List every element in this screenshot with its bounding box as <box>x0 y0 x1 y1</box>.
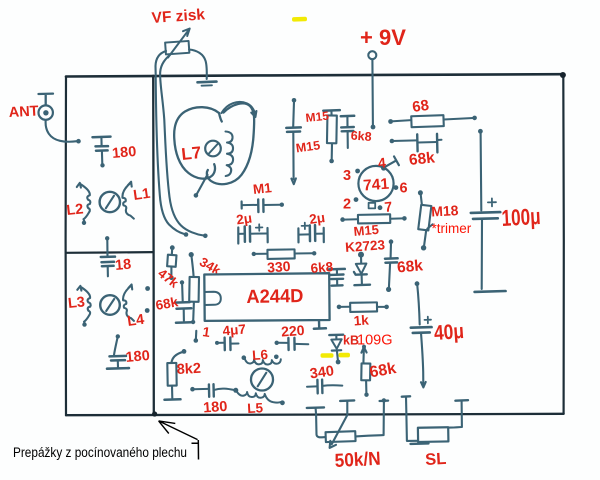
svg-text:68k: 68k <box>396 257 424 276</box>
capacitor 180 (bottom middle) <box>190 384 238 397</box>
potentiometer VF zisk body <box>165 41 189 54</box>
label SL <box>425 450 447 469</box>
svg-text:ANT: ANT <box>8 103 39 121</box>
svg-text:1k: 1k <box>353 312 370 328</box>
coil L2 winding <box>77 183 91 225</box>
svg-text:741: 741 <box>363 176 390 195</box>
label K2723 <box>345 237 386 255</box>
wire L7 bottom lead <box>194 175 208 198</box>
op-amp pin 4 lead with bar <box>381 156 399 170</box>
svg-text:L4: L4 <box>126 312 145 330</box>
wire pot 50k wiper from box <box>330 400 355 448</box>
svg-text:3: 3 <box>343 168 351 184</box>
diode KB109G varicap <box>329 335 343 365</box>
svg-text:6k8: 6k8 <box>350 129 372 144</box>
resistor M15 (vertical) <box>323 110 340 163</box>
wire pot left terminal into box <box>156 51 189 237</box>
label 180 (top left) <box>111 144 137 162</box>
svg-text:SL: SL <box>425 450 447 469</box>
capacitor 6k8 (near 9V) <box>341 116 354 148</box>
op-amp pin 5 square marker <box>369 203 376 209</box>
capacitor 220 <box>275 338 309 350</box>
capacitor 340 <box>307 380 342 394</box>
label 6k8 (near 9V) <box>350 129 372 144</box>
coil L7 winding bumps <box>226 132 234 177</box>
svg-text:M15: M15 <box>305 109 330 125</box>
label L5 <box>247 400 264 416</box>
label pin 7 <box>384 198 394 215</box>
svg-text:180: 180 <box>111 144 137 162</box>
svg-text:2μ: 2μ <box>235 210 253 227</box>
svg-text:M18: M18 <box>431 202 459 219</box>
capacitor 68k (at pin of 741) <box>385 239 398 292</box>
label 2u (right) <box>308 210 326 227</box>
yellow highlighter dash left of KB109G diode <box>321 353 334 358</box>
label 180 (bottom left) <box>125 348 151 366</box>
resistor 1k <box>337 302 389 312</box>
coil L7 main loop <box>174 107 222 179</box>
coil L6 winding <box>242 355 281 365</box>
trimmer M18 <box>418 190 433 250</box>
wire SL right terminal <box>449 400 468 427</box>
wire +9V down into box <box>371 59 376 129</box>
coil L1 winding <box>122 182 133 219</box>
wire L7 top lead with arrow <box>222 102 257 117</box>
svg-text:2: 2 <box>343 197 351 213</box>
label ANT <box>8 103 39 121</box>
resistor 47k <box>167 245 176 280</box>
transformer L3/L4 core <box>100 295 120 315</box>
capacitor M1 <box>242 199 284 212</box>
label 2u (left) <box>235 210 253 227</box>
label M15 (vertical resistor) <box>305 109 330 125</box>
supply +9V label <box>360 25 406 50</box>
coil L5 winding <box>237 391 285 405</box>
label M15 (vertical cap) <box>295 138 321 155</box>
label pin 1 <box>202 324 212 340</box>
svg-text:A244D: A244D <box>246 286 303 308</box>
capacitor 68k (feedback) <box>390 134 442 153</box>
label L6 <box>252 347 269 363</box>
capacitor 18 <box>101 236 115 276</box>
svg-text:50k/N: 50k/N <box>334 449 381 472</box>
svg-text:220: 220 <box>281 322 306 340</box>
supply +9V terminal <box>368 51 376 59</box>
op-amp 741 body <box>358 166 393 201</box>
tuning unit SL body <box>411 427 449 444</box>
coil L7 outer right loop <box>207 103 254 184</box>
label L4 <box>126 312 145 330</box>
label 330 <box>267 258 292 276</box>
svg-text:L1: L1 <box>132 186 151 204</box>
IC A244D body <box>204 273 329 321</box>
wire ANT into box <box>46 120 81 144</box>
partition wall (vertical tin sheet) <box>152 76 157 417</box>
capacitor 2u (right electrolytic) <box>298 223 323 243</box>
svg-text:100μ: 100μ <box>501 203 541 231</box>
wire pot 50k right terminal <box>356 398 389 436</box>
label *trimer <box>432 221 472 236</box>
op-amp pin dots 3,2,6,7 <box>354 169 399 211</box>
label 68 <box>411 97 430 116</box>
label 741 <box>363 176 390 195</box>
label M1 <box>252 180 273 197</box>
wire pot wiper into box <box>160 54 208 239</box>
coil L3 winding <box>77 286 90 327</box>
capacitor 40u electrolytic <box>411 281 432 387</box>
svg-text:330: 330 <box>267 258 292 276</box>
resistor 34k <box>189 252 199 324</box>
label kB <box>343 334 359 348</box>
capacitor 2u (left electrolytic) <box>238 224 267 243</box>
svg-text:2μ: 2μ <box>308 210 326 227</box>
resistor 68k (varicap bias) <box>361 345 370 397</box>
svg-text:4μ7: 4μ7 <box>222 322 247 339</box>
label pin 4 <box>377 154 387 171</box>
label 100u <box>501 203 541 231</box>
diode zener (below K2723) <box>354 252 370 286</box>
yellow highlighter dash right of KB109G diode <box>339 353 351 358</box>
resistor 330 <box>252 249 317 259</box>
capacitor 6k8 (right of IC) <box>329 269 345 286</box>
svg-text:+ 9V: + 9V <box>360 25 406 50</box>
svg-text:Prepážky z pocínovaného plechu: Prepážky z pocínovaného plechu <box>13 445 187 461</box>
label 34k <box>197 254 224 278</box>
label 340 <box>309 363 335 382</box>
capacitor 180 (top left) <box>93 137 111 168</box>
label 109G <box>357 333 392 349</box>
label L2 <box>66 201 85 219</box>
label 47k <box>155 266 182 292</box>
svg-text:180: 180 <box>125 348 151 366</box>
svg-text:K2723: K2723 <box>345 237 386 255</box>
label 68k (varicap bias) <box>368 360 397 381</box>
ground bar at chassis (VF zisk) <box>198 82 217 86</box>
label pin 2 <box>343 197 351 213</box>
capacitor 180 (bottom left) <box>107 334 129 369</box>
label 68k (feedback) <box>408 149 436 169</box>
svg-text:8k2: 8k2 <box>176 361 201 378</box>
label 220 <box>281 322 306 340</box>
caption text Prepazky <box>13 445 187 461</box>
resistor 68 <box>388 115 477 127</box>
svg-text:68: 68 <box>411 97 430 116</box>
svg-text:L3: L3 <box>67 294 86 312</box>
label A244D <box>246 286 303 308</box>
caption end tick <box>192 440 199 460</box>
label L1 <box>132 186 151 204</box>
svg-text:L2: L2 <box>66 201 85 219</box>
label 18 <box>114 257 131 274</box>
ANT connector socket <box>39 105 53 119</box>
svg-text:180: 180 <box>203 399 228 417</box>
wire IC pin1 down <box>194 331 199 343</box>
label 40u <box>433 320 465 345</box>
label L7 <box>180 143 202 164</box>
label VF zisk <box>151 6 206 27</box>
label 8k2 <box>176 361 201 378</box>
svg-text:L5: L5 <box>247 400 264 416</box>
coil L5/L6 adjustable core <box>251 369 273 391</box>
label 6k8 (right of IC) <box>310 259 334 276</box>
svg-text:M1: M1 <box>252 180 273 197</box>
wire SL left terminal <box>402 396 418 441</box>
capacitor M15 (input coupling, long vertical wire) <box>286 98 301 184</box>
ANT connector T-bar <box>39 94 54 106</box>
svg-text:*trimer: *trimer <box>432 221 472 236</box>
shielded enclosure box outline <box>66 72 566 415</box>
svg-text:L6: L6 <box>252 347 269 363</box>
ground stub below IC A244D <box>314 321 326 329</box>
label pin 6 <box>400 181 408 197</box>
transformer L2/L1 core <box>100 192 120 212</box>
label pin 3 <box>343 168 351 184</box>
label 68k (decoupling) <box>154 294 179 313</box>
yellow highlighter dash top <box>292 17 307 22</box>
svg-text:68k: 68k <box>408 149 436 169</box>
wire pot 50k left terminal <box>307 407 326 437</box>
caption arrow to partition <box>159 421 198 440</box>
svg-text:M15: M15 <box>353 222 380 239</box>
capacitor 68k (decoupling) <box>175 280 192 323</box>
label M15 (below 741) <box>353 222 380 239</box>
coil L7 adjustable core <box>205 141 221 157</box>
capacitor 100u electrolytic <box>471 129 506 292</box>
label 50k/N <box>334 449 381 472</box>
capacitor 4u7 <box>215 337 239 350</box>
potentiometer 50k body <box>326 431 356 442</box>
svg-text:40μ: 40μ <box>433 320 465 345</box>
partition wall (horizontal, left compartment divider) <box>66 251 153 254</box>
svg-text:18: 18 <box>114 257 131 274</box>
node dots on partition (L4 side) <box>145 286 150 313</box>
svg-text:6k8: 6k8 <box>310 259 334 276</box>
resistor 8k2 <box>165 349 187 400</box>
label 180 (bottom middle) <box>203 399 228 417</box>
label 4u7 <box>222 322 247 339</box>
resistor M15 (below 741) <box>340 214 406 223</box>
potentiometer VF zisk wiper arrow <box>168 29 190 58</box>
svg-text:L7: L7 <box>180 143 202 164</box>
wire pot right terminal to chassis <box>189 50 207 80</box>
label L3 <box>67 294 86 312</box>
svg-text:6: 6 <box>400 181 408 197</box>
coil L4 winding <box>123 285 134 321</box>
label 68k (mid right) <box>396 257 424 276</box>
label M18 <box>431 202 459 219</box>
label 1k <box>353 312 370 328</box>
